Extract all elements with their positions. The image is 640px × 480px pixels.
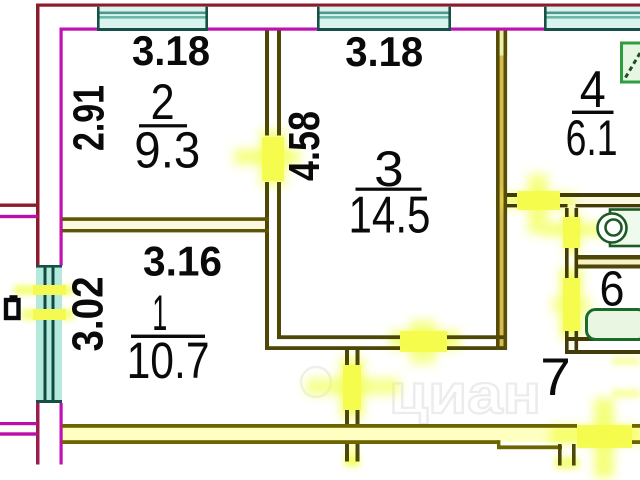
svg-text:6.1: 6.1 (566, 110, 618, 166)
door glow halo: bathroom door (550, 268, 592, 338)
room 4 fraction line (572, 111, 614, 114)
door glow core: room 4 door (517, 191, 560, 210)
door glow halo: entry door bottom wall (550, 398, 640, 478)
door glow core: WC door (563, 217, 580, 248)
svg-text:3.18: 3.18 (132, 27, 210, 74)
wall fill: room 2 bottom wall pale tint (62, 220, 269, 230)
svg-text:4.58: 4.58 (280, 111, 329, 181)
inner wall line: magenta left vertical above window (60, 28, 63, 266)
door glow halo: room 3 bottom door (390, 320, 460, 364)
exterior bottom wall lines (62, 424, 640, 449)
door glow core: room 3 bottom door (400, 331, 447, 352)
wall fill: bottom exterior wall pale yellow (62, 427, 577, 442)
neighbor wall left: dark red horizontal (0, 204, 38, 207)
balcony icon (green square with diagonal) (622, 43, 640, 82)
window W4 yellow opening bands (33, 285, 66, 295)
toilet icon (598, 210, 640, 247)
door glow halo: WC door (544, 210, 606, 254)
door glow core: corridor door (343, 365, 361, 410)
window W3 top (room 4) (544, 7, 640, 31)
interior wall: WC / bathroom left wall segments (565, 208, 578, 354)
watermark circle letter a (301, 367, 331, 397)
door glow core: bathroom door (563, 278, 580, 331)
svg-text:9.3: 9.3 (134, 122, 200, 179)
interior wall: WC bottom wall (578, 255, 640, 269)
window W4 left (room 1) (36, 265, 62, 403)
wall fill: corridor wall stub below bottom wall (346, 444, 359, 462)
wall fill: room 4 bottom wall pale tint (507, 196, 640, 205)
window W1 top (room 2) (97, 7, 208, 31)
svg-text:6: 6 (600, 263, 625, 317)
window W2 top (room 3) (317, 7, 451, 31)
door glow halo: right edge hall streaks (612, 357, 640, 398)
svg-text:3.02: 3.02 (64, 277, 113, 352)
left margin label a (6, 298, 19, 319)
interior wall: room 4 bottom wall / WC top wall (507, 193, 640, 207)
interior wall: room 2 bottom wall (62, 217, 269, 232)
room 1 fraction line (131, 335, 205, 338)
door glow halo: wall stub tips (344, 455, 579, 469)
interior wall: bathroom bottom wall (565, 337, 640, 354)
svg-text:3.16: 3.16 (143, 237, 222, 284)
inner wall line: magenta top pier between windows 2-3 (451, 28, 545, 31)
interior wall: corridor wall stub below bottom wall (345, 444, 360, 462)
interior wall: room 3 bottom wall left of door (265, 335, 400, 350)
bathtub icon (587, 310, 640, 340)
svg-text:7: 7 (540, 348, 571, 407)
svg-text:14.5: 14.5 (349, 186, 431, 244)
interior wall: corridor wall segments (345, 350, 360, 424)
inner wall line: magenta left vertical below window (60, 403, 63, 465)
wall fill: WC bottom wall pale (578, 258, 640, 266)
door glow core: entry door (577, 425, 632, 448)
door glow halo: room 4 door (502, 174, 574, 234)
door glow halo: corridor door (306, 358, 400, 418)
interior wall: rooms 3/4 divider lines (496, 31, 507, 351)
interior wall: room 3 bottom wall right of door (447, 335, 507, 350)
svg-text:2.91: 2.91 (65, 85, 114, 151)
svg-text:циан: циан (389, 362, 541, 425)
door glow halo: left window openings (14, 285, 74, 320)
inner wall line: magenta top pier between windows 1-2 (208, 28, 317, 31)
outer wall: left dark red line (36, 4, 40, 270)
door glow core: rooms 2/3 door (262, 137, 284, 181)
room 2 fraction line (139, 124, 187, 127)
wall fill: rooms 3/4 divider pale top segment (496, 31, 508, 56)
wall fill: rooms 3/4 divider tan fill (496, 30, 507, 350)
outer wall: left dark red line below window (36, 403, 40, 465)
room 3 fraction line (356, 188, 422, 191)
neighbor wall bottom-left: magenta horizontals (0, 422, 37, 425)
interior wall: rooms 2/3 divider upper segment (265, 31, 281, 136)
exterior bottom wall stubs right (558, 444, 576, 466)
svg-text:10.7: 10.7 (127, 332, 210, 389)
interior wall: rooms 2-1/3 divider lower segment (265, 182, 281, 350)
door glow halo: rooms 2/3 door (234, 130, 300, 186)
outer wall: top dark red line (36, 4, 640, 7)
svg-text:3.18: 3.18 (345, 28, 423, 75)
inner wall line: magenta top, left of window 1 (60, 28, 98, 31)
neighbor wall left: magenta horizontal (0, 215, 38, 218)
